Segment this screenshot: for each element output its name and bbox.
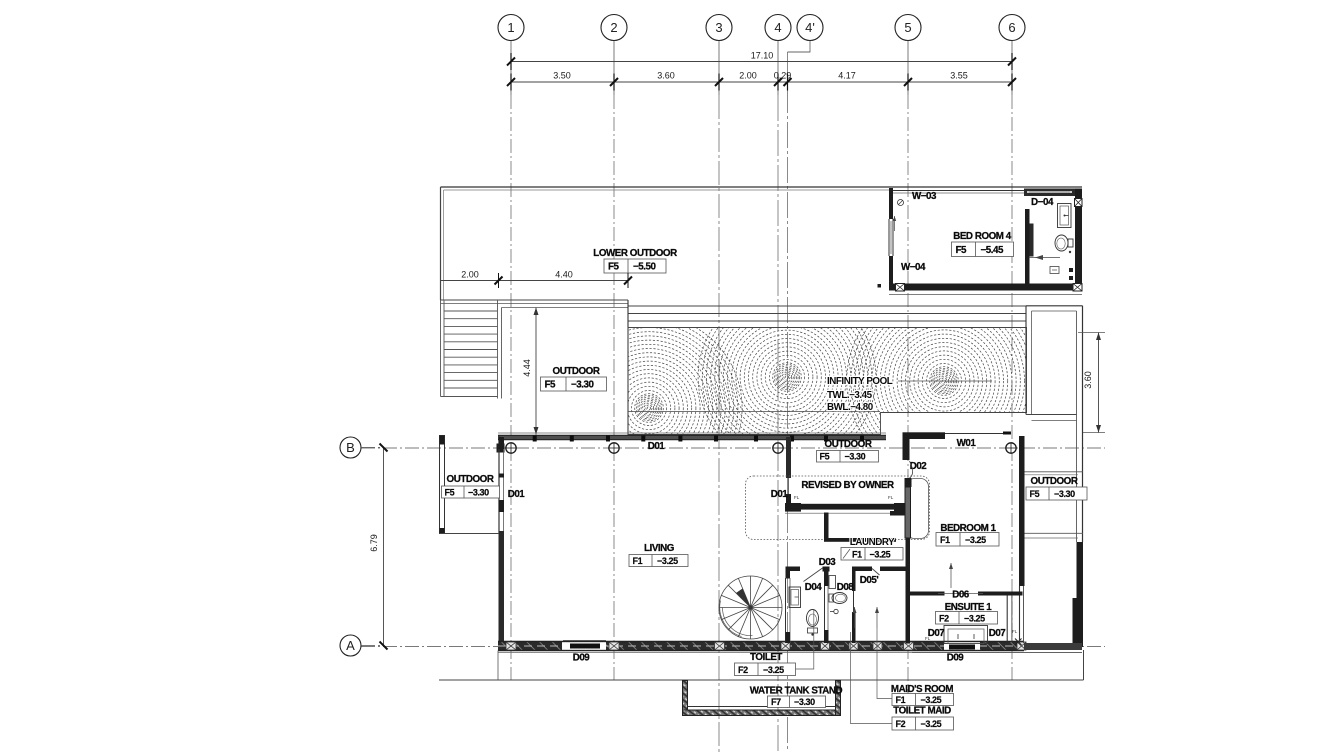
svg-text:D07: D07 (928, 628, 946, 639)
svg-text:D07: D07 (989, 628, 1007, 639)
bed4 right wall (1075, 189, 1082, 292)
tick 17.10 left (507, 58, 515, 66)
grid line 1 (510, 41, 512, 96)
svg-text:F1: F1 (896, 695, 906, 705)
ground line (439, 679, 1084, 681)
svg-text:FL: FL (925, 636, 931, 641)
top wall band (498, 432, 886, 434)
grid line A (361, 646, 1105, 648)
laundry left wall (824, 513, 829, 542)
tick g4 (774, 78, 782, 86)
corner column left (497, 444, 505, 453)
svg-text:−3.30: −3.30 (794, 697, 815, 707)
svg-text:D01: D01 (648, 441, 666, 452)
svg-text:LOWER OUTDOOR: LOWER OUTDOOR (593, 248, 677, 259)
svg-text:1: 1 (507, 20, 514, 35)
svg-text:A: A (346, 638, 355, 653)
corridor step (1026, 414, 1077, 416)
svg-text:D09: D09 (947, 653, 965, 664)
bath arrow (1029, 257, 1060, 259)
svg-text:BWL.−4.80: BWL.−4.80 (827, 402, 874, 413)
svg-text:D01: D01 (771, 489, 789, 500)
svg-text:2: 2 (610, 20, 617, 35)
corridor step lines (1025, 471, 1084, 473)
col marker g4 (773, 443, 783, 453)
bubble B (340, 437, 361, 458)
svg-text:F7: F7 (771, 697, 781, 707)
column X bottom-left (896, 284, 905, 292)
svg-text:−3.30: −3.30 (468, 488, 489, 498)
svg-text:F2: F2 (896, 719, 906, 729)
svg-text:4.17: 4.17 (838, 71, 856, 81)
svg-text:F5: F5 (545, 380, 557, 391)
svg-text:−3.25: −3.25 (964, 614, 985, 624)
deck planks (628, 306, 1027, 328)
bubble 4p (797, 15, 823, 41)
partition wall mid (824, 571, 829, 586)
balcony bottom line (440, 533, 500, 535)
svg-text:FL: FL (794, 495, 800, 500)
shower head (834, 609, 838, 613)
ripple set 2 (698, 288, 876, 466)
svg-text:3.55: 3.55 (950, 71, 968, 81)
svg-text:REVISED BY OWNER: REVISED BY OWNER (801, 480, 894, 491)
left balcony wall (440, 436, 445, 534)
toilet room left wall (786, 567, 791, 579)
svg-text:4.44: 4.44 (522, 359, 532, 377)
tick g3 (715, 78, 723, 86)
tick g4p (784, 78, 792, 86)
corner column ensuite (1015, 639, 1022, 646)
bubble A (340, 635, 361, 656)
svg-text:−3.25: −3.25 (921, 695, 942, 705)
INTERIOR (629, 432, 1087, 643)
grid line 2 (613, 41, 615, 96)
svg-text:TOILET: TOILET (750, 652, 782, 663)
svg-text:TWL.−3.45: TWL.−3.45 (827, 390, 873, 401)
svg-text:OUTDOOR: OUTDOOR (825, 439, 872, 450)
svg-text:F1: F1 (940, 535, 950, 545)
svg-text:−5.45: −5.45 (981, 245, 1005, 256)
bath vanity (1058, 204, 1072, 228)
svg-text:D04: D04 (805, 582, 823, 593)
svg-text:−3.30: −3.30 (1054, 489, 1075, 499)
dim line segments (511, 81, 1012, 83)
toilet vanity (789, 587, 801, 608)
svg-text:TOILET MAID: TOILET MAID (893, 706, 951, 717)
left wall upper (498, 436, 500, 534)
svg-text:F1: F1 (633, 556, 643, 566)
svg-text:B: B (346, 440, 355, 455)
leader toilet maid (851, 632, 893, 724)
maid WC (832, 593, 847, 604)
svg-text:F2: F2 (738, 665, 748, 675)
svg-text:−3.25: −3.25 (965, 535, 986, 545)
partition wall right (852, 571, 856, 591)
door D09 right (944, 642, 980, 650)
door D-04 band (1024, 189, 1075, 197)
MAINHOUSE (439, 433, 1084, 680)
door D09 left (562, 642, 606, 650)
svg-text:F1: F1 (852, 550, 862, 560)
arrows maid (854, 607, 856, 628)
svg-text:3.60: 3.60 (1083, 371, 1093, 389)
left wall lower (499, 531, 505, 642)
tick g5 (904, 78, 912, 86)
pool centre line left (628, 411, 880, 413)
svg-text:W−03: W−03 (912, 191, 937, 202)
pool ripples (556, 284, 1041, 501)
svg-text:−3.25: −3.25 (870, 550, 891, 560)
grid line 5 (907, 41, 909, 96)
right lower rect (912, 652, 1082, 654)
svg-text:F5: F5 (1030, 489, 1040, 499)
svg-text:6.79: 6.79 (369, 534, 379, 552)
bubble 3 (706, 15, 732, 41)
right corridor lower wall (1077, 542, 1084, 647)
svg-text:4: 4 (774, 20, 781, 35)
svg-text:17.10: 17.10 (751, 51, 774, 61)
svg-text:F2: F2 (939, 614, 949, 624)
svg-text:2.00: 2.00 (739, 71, 757, 81)
svg-text:−3.25: −3.25 (763, 665, 784, 675)
bubble 6 (999, 15, 1025, 41)
col marker g1 (506, 443, 516, 453)
bottom wall columns (506, 642, 1026, 650)
corridor top outline (1026, 305, 1083, 307)
maid basin (829, 576, 836, 589)
svg-text:−3.30: −3.30 (845, 452, 866, 462)
GRID-LINES (340, 15, 1105, 753)
dot left of block (878, 284, 882, 288)
BOTTOM (683, 610, 954, 730)
bubble 1 (498, 15, 524, 41)
svg-text:F5: F5 (820, 452, 830, 462)
ensuite right wall (1006, 596, 1008, 642)
bed4 bottom wall (889, 284, 1082, 291)
BEDROOM4 (878, 188, 1083, 295)
svg-text:4': 4' (805, 20, 815, 35)
bubble 5 (895, 15, 921, 41)
corridor bottom band (1024, 643, 1082, 650)
interior wall bed4 bath (1025, 209, 1030, 284)
TOP-DIMS (507, 51, 1016, 91)
svg-text:W−04: W−04 (901, 262, 926, 273)
dim line 17.10 (511, 61, 1012, 63)
ripple set 3 (847, 284, 1042, 479)
stairs (441, 300, 502, 399)
svg-text:−5.50: −5.50 (633, 262, 657, 273)
dim 3.60 right (1078, 332, 1105, 334)
notch left wall with D01 (786, 437, 791, 478)
bubble 2 (601, 15, 627, 41)
LEFT-DIMS (369, 444, 388, 650)
svg-text:D−04: D−04 (1031, 197, 1054, 208)
svg-text:D05': D05' (860, 575, 879, 586)
bath floor drain (1050, 267, 1059, 274)
column X top-right (1075, 199, 1083, 207)
svg-text:OUTDOOR: OUTDOOR (553, 366, 600, 377)
svg-text:F5: F5 (608, 262, 620, 273)
svg-text:F5: F5 (445, 488, 455, 498)
laundry bottom wall (824, 538, 896, 542)
svg-text:3: 3 (715, 20, 722, 35)
svg-text:3.60: 3.60 (657, 71, 675, 81)
svg-text:−3.25: −3.25 (657, 556, 678, 566)
bottom wall band (498, 642, 1024, 651)
svg-text:3.50: 3.50 (553, 71, 571, 81)
svg-text:LIVING: LIVING (644, 543, 675, 554)
corridor left wall (1019, 436, 1025, 586)
laundry top band (785, 504, 910, 510)
arrow bed4 wall (894, 216, 896, 231)
svg-text:FL: FL (888, 495, 894, 500)
bed4 top window W-03 (893, 190, 1026, 192)
svg-text:6: 6 (1008, 20, 1015, 35)
svg-text:BED ROOM 4: BED ROOM 4 (953, 231, 1012, 242)
svg-text:2.00: 2.00 (461, 270, 479, 280)
ensuite vanity (944, 626, 988, 644)
svg-text:−3.25: −3.25 (921, 719, 942, 729)
svg-text:D03: D03 (819, 557, 837, 568)
tick g1 (507, 78, 515, 86)
bath toilet (1055, 235, 1068, 251)
svg-text:OUTDOOR: OUTDOOR (1031, 476, 1078, 487)
ripple set 1 (556, 315, 742, 501)
leader toilet (796, 610, 814, 669)
svg-text:WATER TANK STAND: WATER TANK STAND (750, 686, 843, 697)
pool centre line right (898, 380, 992, 382)
grid line B (361, 447, 1105, 449)
svg-text:FL: FL (1012, 629, 1018, 634)
svg-text:D09: D09 (573, 653, 591, 664)
tick 17.10 right (1008, 58, 1016, 66)
grid line 6 (1011, 41, 1013, 96)
grid line 4p (788, 41, 811, 53)
svg-text:−3.30: −3.30 (571, 380, 595, 391)
label INFINITY POOL (827, 376, 893, 413)
water tank stand (683, 681, 841, 716)
pool left edge (627, 300, 629, 435)
bubble 4 (765, 15, 791, 41)
toilet WC (807, 610, 819, 627)
symbol circle (898, 200, 904, 206)
svg-text:D01: D01 (508, 489, 526, 500)
LOWER-OUTDOOR (441, 187, 1083, 435)
tick g2 (610, 78, 618, 86)
POOL (556, 284, 1105, 542)
col marker g2 (609, 443, 619, 453)
dim 2.00 / 4.40 (441, 280, 629, 282)
grid line 3 (718, 41, 720, 96)
door D05 leaf (872, 569, 880, 576)
terrace outline left (440, 187, 442, 300)
terrace bottom edge (441, 299, 629, 301)
below-wall line (498, 652, 1082, 654)
svg-text:D06: D06 (952, 590, 970, 601)
bedroom1 left wall (905, 478, 912, 487)
column X bottom-right (1073, 284, 1082, 292)
svg-text:4.40: 4.40 (555, 270, 573, 280)
mullion marks (533, 436, 864, 442)
svg-text:D08: D08 (837, 582, 855, 593)
tick g6 (1008, 78, 1016, 86)
pool boundary (628, 328, 1027, 435)
door leaf D-04 inner (1030, 224, 1034, 257)
dim line 6.79 (383, 448, 385, 646)
svg-text:F5: F5 (956, 245, 968, 256)
svg-text:0.29: 0.29 (774, 71, 792, 81)
svg-text:LAUNDRY: LAUNDRY (850, 537, 895, 548)
ensuite top wall D06 (909, 592, 945, 596)
svg-text:5: 5 (904, 20, 911, 35)
svg-text:OUTDOOR: OUTDOOR (447, 474, 494, 485)
revised by owner box (746, 476, 930, 540)
dim 4.44 vertical (535, 308, 537, 435)
window W01 (945, 433, 1006, 435)
bed4 left wall (889, 188, 893, 219)
grid line 4 (777, 41, 779, 96)
svg-text:W01: W01 (957, 438, 977, 449)
door D03 leaf (804, 568, 823, 582)
leader maid's room (877, 628, 892, 699)
svg-text:INFINITY POOL: INFINITY POOL (827, 376, 893, 387)
col marker g6 (1006, 443, 1016, 453)
door D02 leaf (909, 461, 913, 479)
wall D02 top (903, 432, 946, 439)
partition walls top (786, 567, 801, 572)
spiral stair (719, 576, 782, 639)
terrace outline top (441, 186, 1083, 188)
arrow bedroom1 (950, 563, 952, 588)
